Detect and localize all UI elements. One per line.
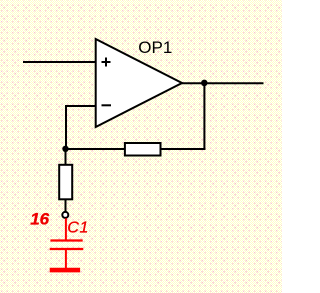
wire: feedback vertical from output <box>203 83 205 150</box>
pin 16 terminal circle <box>62 212 68 218</box>
wire: resistor to pin <box>65 200 67 212</box>
wire: junction to resistor <box>65 149 67 164</box>
wire: inverting input <box>66 106 96 149</box>
ground bar (red) <box>50 268 80 273</box>
wire: feedback horizontal left segment <box>66 148 125 150</box>
resistor R-series (vertical) <box>59 165 72 200</box>
node: inverting input junction <box>62 146 68 152</box>
svg-text:C1: C1 <box>67 220 88 237</box>
wire: pin to capacitor (red) <box>65 218 67 241</box>
capacitor C1 top plate <box>50 239 82 241</box>
capacitor C1 bottom plate <box>50 248 84 250</box>
svg-text:OP1: OP1 <box>138 38 172 57</box>
svg-text:16: 16 <box>30 209 49 228</box>
wire: feedback horizontal right segment <box>162 148 206 150</box>
op-amp plus input marker <box>102 58 111 67</box>
wire: non-inverting input <box>23 61 96 63</box>
wire: capacitor to ground (red) <box>65 249 67 269</box>
wire: output <box>181 82 264 84</box>
op-amp U1 (OP1) <box>96 39 182 127</box>
op-amp minus input marker <box>102 104 112 106</box>
resistor R-feedback <box>125 143 161 156</box>
node: output junction <box>201 80 208 87</box>
